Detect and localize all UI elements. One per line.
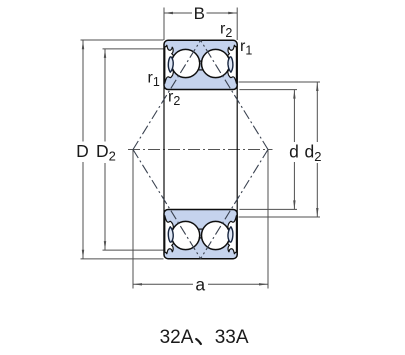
- extension line D top: [81, 39, 164, 41]
- arrowhead d2 bottom: [316, 208, 318, 217]
- arrowhead D2 top: [104, 49, 106, 58]
- contact line lower-right: [201, 150, 268, 259]
- dimension line D: [82, 40, 84, 141]
- side face line left: [163, 86, 165, 213]
- extension line D bottom: [81, 258, 164, 260]
- svg-text:B: B: [194, 4, 205, 23]
- caption ideographic comma: [196, 339, 201, 344]
- extension line a left: [132, 150, 134, 289]
- arrowhead D bottom: [82, 250, 84, 259]
- extension line d2 top: [239, 81, 320, 83]
- dimension line d2: [316, 82, 318, 142]
- extension line d top: [239, 89, 297, 91]
- arrowhead D top: [82, 40, 84, 49]
- extension line B left: [163, 8, 165, 41]
- arrowhead a left: [133, 283, 142, 285]
- extension line d2 bottom: [239, 216, 320, 218]
- svg-text:33A: 33A: [215, 327, 249, 348]
- svg-text:d: d: [289, 142, 299, 162]
- svg-text:a: a: [195, 275, 205, 295]
- arrowhead B left: [164, 12, 173, 14]
- dimension line a: [133, 283, 193, 285]
- side face line right: [236, 86, 238, 213]
- centerline (bearing axis): [128, 149, 273, 151]
- extension line D2 top: [103, 48, 164, 50]
- bearing section above axis: [164, 40, 237, 89]
- svg-text:D: D: [76, 141, 89, 161]
- dimension line D2: [104, 49, 106, 142]
- extension line D2 bottom: [103, 249, 164, 251]
- arrowhead a right: [259, 283, 268, 285]
- arrowhead D2 bottom: [104, 241, 106, 250]
- extension line B right: [236, 8, 238, 41]
- dimension line d: [293, 90, 295, 142]
- dimension line B: [164, 12, 192, 14]
- extension line a right: [267, 150, 269, 289]
- arrowhead B right: [228, 12, 237, 14]
- arrowhead d top: [293, 90, 295, 99]
- extension line d bottom: [239, 208, 297, 210]
- svg-text:32A: 32A: [160, 327, 194, 348]
- contact line lower-left: [133, 150, 201, 259]
- contact line upper-right: [201, 40, 268, 149]
- arrowhead d2 top: [316, 82, 318, 91]
- arrowhead d bottom: [293, 200, 295, 209]
- bearing section below axis: [164, 210, 237, 259]
- contact line upper-left: [133, 40, 201, 149]
